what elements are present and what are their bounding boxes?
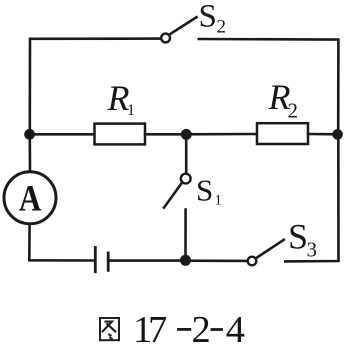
- svg-text:4: 4: [226, 309, 245, 346]
- svg-text:S: S: [196, 172, 213, 207]
- node: right junction: [332, 129, 343, 140]
- svg-text:A: A: [19, 179, 42, 219]
- wire: top-right segment and right vertical down to node: [199, 39, 339, 133]
- wire: center branch lower (S1 to bottom node): [184, 210, 187, 261]
- caption ideogram "tu" drawn as strokes: [100, 318, 119, 340]
- wire: center node to R2: [186, 133, 257, 136]
- switch S1 lever: [164, 182, 182, 207]
- wire: S3 to bottom-right corner and right vertical up to node: [285, 135, 338, 261]
- svg-text:2: 2: [192, 309, 211, 346]
- switch S3 lever: [256, 240, 284, 258]
- svg-text:1: 1: [215, 193, 223, 209]
- battery positive plate (long): [94, 248, 97, 272]
- switch S2 lever: [169, 17, 196, 34]
- wire: top-left segment and left vertical down to node: [30, 39, 162, 133]
- node: left junction: [24, 129, 35, 140]
- wire: ammeter to bottom-left corner: [29, 225, 94, 261]
- svg-text:2: 2: [288, 99, 299, 123]
- resistor R1 body: [95, 124, 146, 145]
- wire: battery to bottom node: [110, 259, 186, 262]
- svg-text:2: 2: [217, 17, 227, 38]
- svg-text:S: S: [288, 217, 308, 257]
- switch S3 pivot circle: [248, 257, 257, 266]
- wire: middle center (R1 to center node): [145, 133, 186, 136]
- switch S1 pivot circle: [181, 174, 191, 184]
- resistor R2 body: [257, 123, 308, 144]
- switch S2 pivot circle: [161, 34, 170, 43]
- wire: left vertical node to ammeter: [28, 135, 31, 171]
- svg-text:1: 1: [127, 102, 135, 119]
- node: center junction: [181, 129, 192, 140]
- wire: center branch upper (node to S1 circle): [185, 134, 188, 173]
- battery negative plate (short): [107, 253, 110, 270]
- svg-text:S: S: [199, 0, 217, 34]
- ammeter A body circle: [4, 172, 56, 224]
- svg-text:3: 3: [307, 238, 318, 262]
- wire: R2 to right node: [308, 133, 338, 136]
- node: bottom junction: [180, 255, 191, 266]
- wire: bottom node to S3: [186, 259, 248, 262]
- wire: middle left (left node to R1): [30, 133, 95, 136]
- svg-text:7: 7: [148, 309, 167, 346]
